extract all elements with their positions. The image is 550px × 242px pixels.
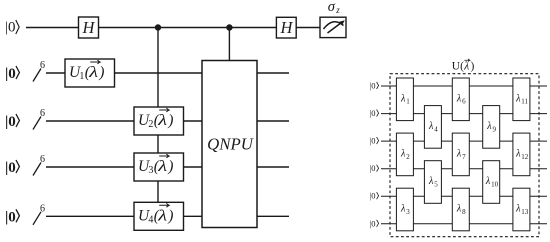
svg-text:12: 12 [521,153,529,161]
svg-text:4: 4 [148,214,153,225]
svg-text:|0: |0 [370,218,376,228]
svg-text:|0: |0 [370,81,376,91]
svg-text:λ: λ [515,94,521,105]
svg-text:λ: λ [400,204,406,215]
svg-text:λ: λ [157,112,167,129]
label sigma_z [328,0,341,15]
svg-text:|0: |0 [5,160,16,176]
label U(lambda) title [452,59,475,73]
wire row 3 segment a [46,120,202,122]
svg-text:|0: |0 [5,20,16,36]
svg-text:H: H [279,18,293,37]
wire control vertical 1 [157,28,159,217]
svg-text:|0: |0 [370,191,376,201]
wire row 1 segment a [26,27,79,29]
svg-text:|0: |0 [370,108,376,118]
qubit label |0> row 1 [5,20,19,36]
svg-text:z: z [335,5,340,15]
wire row 1 segment c [296,27,320,29]
svg-text:|0: |0 [370,163,376,173]
measurement meter [320,17,346,37]
bus slash 6 row 3 [33,108,45,130]
svg-text:σ: σ [328,0,336,15]
gate lambda7 [452,133,469,176]
bus slash 6 row 4 [33,154,45,176]
svg-text:): ) [167,207,173,224]
wire row 5 segment b [257,215,289,217]
wire rp row 2 [381,113,547,115]
svg-text:6: 6 [462,98,466,106]
qubit label |0> row 4 [5,160,19,176]
qubit label rp |0> row 3 [370,136,379,146]
svg-text:QNPU: QNPU [207,134,255,153]
svg-text:9: 9 [493,125,497,133]
node control dot 2 [226,24,232,30]
svg-text:|0: |0 [5,66,16,82]
svg-text:λ: λ [515,204,521,215]
svg-text:λ: λ [486,121,492,132]
svg-text:λ: λ [157,207,167,224]
gate H second [276,17,296,38]
svg-text:7: 7 [462,153,466,161]
svg-text:6: 6 [40,203,45,214]
qubit label rp |0> row 2 [370,108,379,118]
wire rp row 5 [381,195,547,197]
svg-text:6: 6 [40,154,45,165]
wire rp row 6 [381,223,547,225]
svg-text:λ: λ [428,176,434,187]
svg-text:4: 4 [434,125,438,133]
gate lambda4 [424,106,441,149]
gate lambda9 [483,106,500,149]
gate lambda1 [396,78,413,121]
svg-text:): ) [167,158,173,175]
svg-text:): ) [471,60,475,72]
gate U3 [134,153,184,181]
svg-text:λ: λ [400,149,406,160]
wire row 1 segment b [99,27,277,29]
svg-text:λ: λ [400,94,406,105]
gate lambda3 [396,188,413,231]
svg-text:10: 10 [491,180,499,188]
svg-text:3: 3 [406,208,410,216]
svg-text:λ: λ [456,94,462,105]
qubit label |0> row 5 [5,209,19,225]
qubit label rp |0> row 6 [370,218,379,228]
svg-text:8: 8 [462,208,466,216]
svg-text:λ: λ [456,149,462,160]
gate lambda2 [396,133,413,176]
svg-text:H: H [82,18,96,37]
gate H first [79,17,99,38]
svg-text:): ) [98,64,104,81]
wire control vertical 2 [228,28,230,61]
svg-text:λ: λ [428,121,434,132]
gate U4 [134,202,184,230]
svg-text:2: 2 [406,153,410,161]
node control dot 1 [155,24,161,30]
svg-text:13: 13 [521,208,529,216]
svg-text:λ: λ [456,204,462,215]
gate lambda6 [452,78,469,121]
wire row 4 segment b [257,166,289,168]
gate QNPU [202,61,257,228]
svg-text:λ: λ [485,176,491,187]
wire rp row 4 [381,168,547,170]
svg-text:1: 1 [406,98,410,106]
svg-text:5: 5 [434,180,438,188]
svg-text:λ: λ [463,60,469,72]
gate U2 [134,107,184,135]
qubit label |0> row 2 [5,66,19,82]
gate lambda5 [424,161,441,204]
qubit label rp |0> row 4 [370,163,379,173]
gate lambda10 [483,161,500,204]
svg-text:|0: |0 [5,209,16,225]
svg-text:11: 11 [521,98,528,106]
svg-text:): ) [167,112,173,129]
bus slash 6 row 5 [33,203,45,225]
bus slash 6 row 2 [33,60,45,82]
gate lambda11 [513,78,530,121]
svg-text:|0: |0 [5,114,16,130]
wire row 4 segment a [46,166,202,168]
wire row 2 segment a [46,72,202,74]
wire rp row 1 [381,85,547,87]
wire row 3 segment b [257,120,289,122]
gate lambda12 [513,133,530,176]
wire row 2 segment b [257,72,289,74]
svg-text:λ: λ [88,64,98,81]
svg-text:6: 6 [40,108,45,119]
qubit label rp |0> row 1 [370,81,379,91]
svg-text:λ: λ [157,158,167,175]
svg-text:|0: |0 [370,136,376,146]
gate lambda8 [452,188,469,231]
svg-text:1: 1 [79,71,84,82]
svg-text:λ: λ [515,149,521,160]
dashed box U(lambda) [390,74,539,237]
qubit label rp |0> row 5 [370,191,379,201]
svg-text:2: 2 [148,119,153,130]
wire row 5 segment a [46,215,202,217]
gate U1 [65,59,115,87]
svg-text:6: 6 [40,60,45,71]
svg-text:U(: U( [452,60,464,72]
svg-text:3: 3 [148,165,153,176]
qubit label |0> row 3 [5,114,19,130]
wire rp row 3 [381,140,547,142]
gate lambda13 [513,188,530,231]
